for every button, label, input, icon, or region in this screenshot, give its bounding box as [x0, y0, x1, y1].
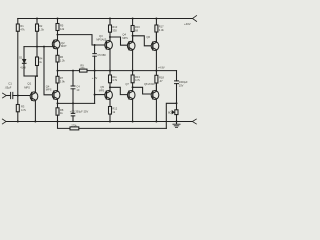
resistor R9 horizontal: [80, 69, 88, 72]
svg-text:+C3 350µF·25V: +C3 350µF·25V: [70, 110, 89, 114]
svg-text:47k: 47k: [20, 28, 25, 32]
svg-text:R12: R12: [112, 106, 117, 110]
node output terminal right arrow: [192, 119, 196, 124]
svg-text:+.9V: +.9V: [92, 76, 98, 80]
wire Q3 collector to Q4 base: [110, 37, 129, 45]
resistor R7: [57, 71, 59, 77]
resistor R4: [36, 47, 38, 57]
resistor R8: [57, 103, 59, 107]
svg-text:25V: 25V: [179, 83, 184, 87]
svg-text:R13: R13: [135, 75, 140, 79]
wire drive to lower Q2 base: [44, 47, 54, 95]
wire bias node to Q2 base: [24, 46, 54, 48]
wire output drop: [176, 71, 178, 81]
resistor R6: [56, 55, 59, 62]
node ground terminal left arrow: [2, 119, 6, 124]
svg-text:C1: C1: [8, 82, 12, 86]
svg-text:R2: R2: [39, 24, 43, 28]
capacitor C7 output electrolytic: [175, 81, 179, 84]
transistor Q7: [127, 91, 135, 100]
svg-text:.47: .47: [159, 79, 163, 83]
resistor R12: [109, 107, 112, 115]
svg-text:3.3k: 3.3k: [159, 28, 165, 32]
resistor R3: [17, 96, 19, 105]
transistor Q2 lower: [52, 91, 60, 100]
node input bias junction: [17, 95, 19, 97]
wire C1 to Q1 base: [13, 95, 32, 97]
capacitor C5: [93, 54, 97, 57]
svg-text:Q7: Q7: [125, 82, 129, 86]
wire bottom ground rail: [6, 121, 192, 123]
wire mid emitter bus: [58, 70, 177, 72]
svg-text:R18: R18: [159, 75, 164, 79]
resistor R16: [132, 18, 134, 20]
svg-text:1.5k: 1.5k: [39, 28, 45, 32]
svg-text:Q8 2N30: Q8 2N30: [144, 82, 155, 86]
svg-text:C5 680: C5 680: [97, 53, 106, 57]
resistor R10: [109, 18, 111, 20]
svg-text:4.7k: 4.7k: [112, 78, 118, 82]
resistor R13: [132, 71, 134, 75]
svg-text:MPS: MPS: [46, 88, 52, 92]
svg-text:R10: R10: [112, 25, 117, 29]
svg-text:3.9k: 3.9k: [60, 80, 66, 84]
transistor Q3: [105, 41, 113, 50]
resistor R2: [36, 18, 38, 20]
capacitor C1: [11, 92, 13, 98]
svg-text:R5: R5: [60, 23, 64, 27]
wire input to C1: [6, 95, 10, 97]
svg-text:330: 330: [112, 29, 117, 33]
svg-text:MPS: MPS: [24, 85, 30, 89]
svg-text:R3: R3: [21, 105, 25, 109]
svg-text:MPS: MPS: [99, 89, 105, 92]
transistor Q2 upper driver: [52, 40, 60, 49]
resistor R17: [155, 18, 157, 20]
transistor Q5: [105, 91, 113, 100]
wire feedback tap: [166, 103, 176, 128]
diode D1: [23, 47, 25, 60]
svg-text:+40V: +40V: [184, 22, 191, 26]
transistor Q4: [127, 41, 135, 50]
svg-text:Q3: Q3: [99, 34, 103, 38]
svg-text:12k: 12k: [60, 27, 65, 31]
transistor Q8 output: [151, 91, 159, 100]
svg-text:MPS: MPS: [122, 37, 128, 40]
svg-text:1.2k: 1.2k: [60, 59, 66, 63]
wire D1 to Q1 collector node: [24, 75, 37, 77]
resistor R1: [17, 19, 19, 25]
wire Q4 collector to Q6 base: [133, 36, 153, 46]
svg-text:270: 270: [80, 67, 85, 70]
transistor Q1: [30, 92, 38, 101]
svg-text:270k: 270k: [71, 124, 77, 127]
capacitor C4: [72, 70, 74, 72]
svg-text:R6: R6: [60, 55, 64, 59]
svg-text:4.7k: 4.7k: [135, 78, 141, 82]
svg-text:4.7k: 4.7k: [21, 108, 27, 112]
svg-text:R17: R17: [159, 25, 164, 29]
svg-text:2000µF: 2000µF: [179, 80, 188, 84]
svg-text:Q6: Q6: [146, 35, 150, 39]
svg-text:.05µF: .05µF: [5, 85, 12, 89]
wire Q7 collector to Q8 base: [133, 87, 153, 94]
node +40V supply terminal arrow: [193, 16, 197, 22]
svg-text:R7: R7: [60, 76, 64, 80]
svg-text:+4.9V: +4.9V: [158, 65, 165, 69]
svg-text:R16: R16: [135, 25, 140, 29]
speaker 8 ohm: [175, 110, 178, 115]
wire to Q5 base: [95, 94, 107, 96]
svg-text:8Ω: 8Ω: [168, 110, 172, 114]
svg-text:R8: R8: [60, 108, 64, 112]
capacitor C3 electrolytic: [72, 103, 74, 113]
wire feedback run: [58, 122, 167, 129]
svg-text:Q1: Q1: [27, 82, 31, 86]
wire top supply rail: [18, 18, 193, 20]
svg-text:R11: R11: [112, 75, 117, 79]
node input terminal arrow: [3, 93, 7, 98]
svg-text:4148: 4148: [20, 67, 26, 70]
wire Q2 lower emitter bus: [58, 102, 95, 104]
resistor R11: [109, 71, 111, 75]
svg-text:MOT: MOT: [61, 44, 67, 48]
wire Q5 collector to Q7 base: [110, 87, 129, 94]
resistor R5: [57, 18, 59, 20]
svg-text:MPSA05: MPSA05: [96, 38, 106, 41]
svg-text:Q4: Q4: [122, 32, 126, 36]
resistor R18: [155, 71, 157, 76]
svg-text:R1: R1: [20, 24, 24, 28]
ground: [176, 122, 178, 125]
wire Q2 collector node to Q3 base: [58, 35, 107, 45]
resistor R19 feedback: [70, 127, 79, 130]
transistor Q6: [151, 42, 159, 51]
wire R1 to input node: [17, 31, 19, 95]
wire Q3 base feed vertical: [94, 45, 96, 54]
